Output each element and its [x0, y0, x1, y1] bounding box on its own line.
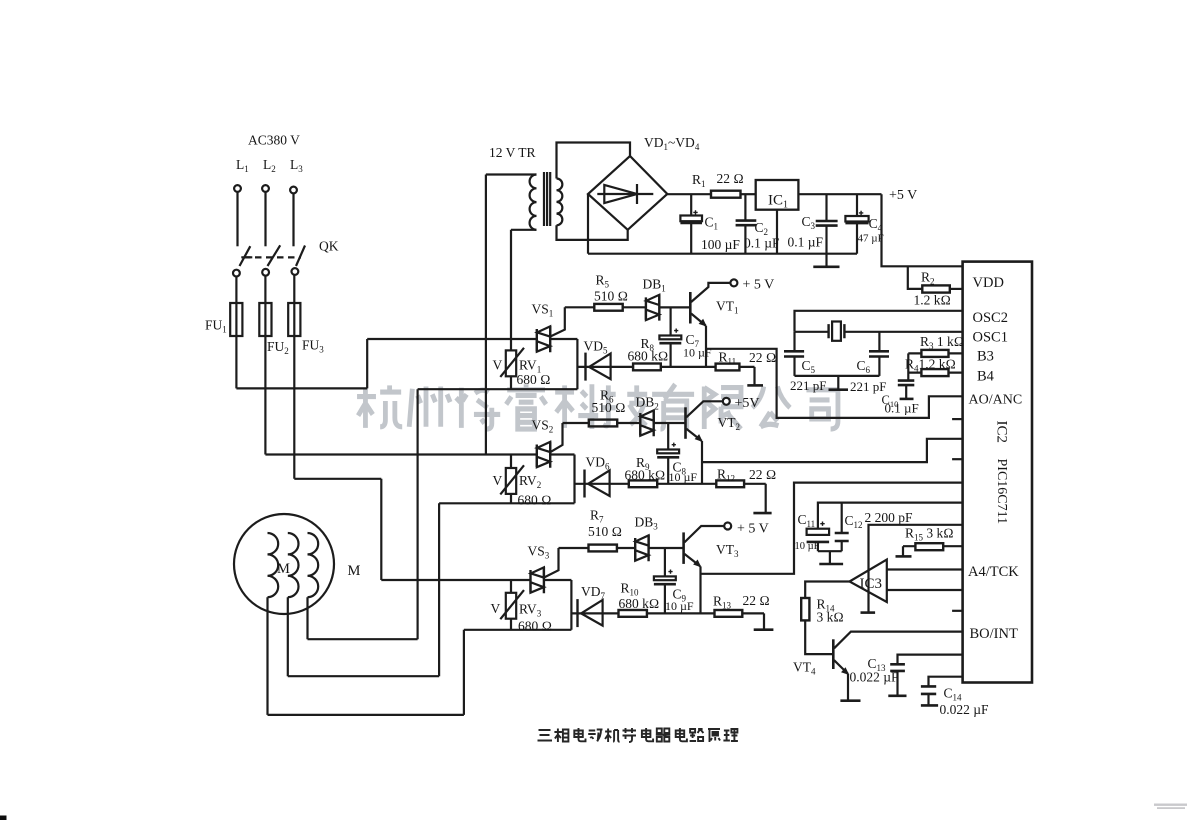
svg-text:L2: L2: [263, 157, 276, 174]
svg-text:R41.2 kΩ: R41.2 kΩ: [905, 357, 956, 374]
wire channel3 phase bus: [381, 579, 530, 581]
svg-text:C11: C11: [798, 512, 816, 529]
wire IC3 input 2: [887, 589, 963, 591]
svg-text:FU1: FU1: [205, 318, 227, 335]
resistor R10: [619, 610, 647, 617]
wire channel3 to motor: [464, 629, 572, 631]
diode VD5: [577, 366, 633, 368]
svg-text:+ 5 V: + 5 V: [737, 522, 769, 537]
capacitor C6: [878, 332, 880, 352]
wire to FU3: [293, 275, 295, 303]
svg-text:680 Ω: 680 Ω: [517, 372, 551, 387]
switch QK contact 2: [262, 269, 269, 276]
svg-text:RV3: RV3: [519, 602, 542, 619]
bridge rectifier VD1-VD4: [588, 156, 667, 230]
svg-text:V: V: [493, 473, 503, 488]
capacitor C8: [667, 423, 669, 450]
svg-text:680 kΩ: 680 kΩ: [628, 349, 669, 364]
fuse FU1: [230, 303, 242, 336]
svg-text:VT3: VT3: [716, 542, 739, 559]
svg-text:IC1: IC1: [768, 193, 788, 211]
wire R1 to IC1: [741, 193, 756, 195]
transistor VT1: [689, 292, 692, 324]
svg-text:R12: R12: [717, 467, 735, 484]
resistor R11: [716, 364, 740, 371]
capacitor C1: [690, 194, 692, 215]
ground below R11: [747, 384, 763, 387]
wire OSC2: [795, 311, 963, 332]
ground below C10: [900, 398, 914, 401]
wire IC3 output to R14: [805, 582, 849, 599]
caption char jie: [623, 728, 637, 742]
svg-text:VT2: VT2: [718, 415, 741, 432]
svg-text:680 kΩ: 680 kΩ: [625, 468, 666, 483]
svg-text:+ 5 V: + 5 V: [743, 278, 775, 293]
svg-text:IC2: IC2: [994, 421, 1010, 444]
capacitor C9: [664, 548, 666, 576]
svg-text:QK: QK: [319, 239, 339, 254]
svg-text:221 pF: 221 pF: [790, 378, 826, 393]
capacitor C5: [793, 332, 795, 352]
caption char san: [538, 730, 553, 741]
ground below R15: [896, 555, 912, 558]
terminal L2: [262, 185, 269, 192]
motor winding 3: [308, 533, 319, 597]
wire channel1 phase bus: [367, 339, 537, 388]
ground below C3: [813, 265, 839, 268]
capacitor C14: [929, 677, 963, 687]
svg-text:10 µF: 10 µF: [683, 346, 712, 360]
svg-text:100 µF: 100 µF: [701, 237, 740, 252]
watermark char rui: [506, 384, 546, 429]
svg-text:M: M: [277, 561, 290, 577]
transformer TR primary winding: [530, 175, 537, 230]
pin stub unconnected 3: [952, 610, 963, 612]
pin stub unconnected 2: [952, 458, 963, 460]
wire DB1 to VT1 base: [659, 306, 690, 308]
resistor R7: [559, 547, 589, 549]
watermark char gong: [752, 386, 790, 426]
svg-text:OSC2: OSC2: [973, 310, 1008, 326]
wire L3 lead: [292, 194, 294, 247]
watermark char jiang: [456, 388, 500, 429]
svg-text:R3 1 kΩ: R3 1 kΩ: [920, 334, 964, 351]
caption char dong: [588, 730, 602, 742]
switch QK blade 1: [240, 246, 253, 266]
varistor RV2: [510, 455, 512, 504]
svg-text:FU2: FU2: [267, 339, 289, 356]
wire gate VS1: [551, 307, 565, 336]
svg-text:22 Ω: 22 Ω: [749, 350, 776, 365]
svg-text:C5: C5: [802, 358, 816, 375]
svg-text:VDD: VDD: [973, 275, 1004, 291]
faint site watermark bottom right: [1154, 804, 1187, 810]
svg-text:V: V: [491, 601, 501, 616]
ground below R12: [753, 512, 771, 515]
svg-text:C12: C12: [845, 513, 863, 530]
svg-text:R7: R7: [590, 508, 604, 525]
wire motor terminal 3: [308, 389, 418, 639]
svg-text:0.022 µF: 0.022 µF: [850, 670, 900, 685]
caption char lu: [690, 729, 704, 741]
wire ground rail of supply: [588, 253, 857, 255]
transistor VT3: [682, 532, 685, 564]
resistor R6: [563, 422, 589, 424]
wire crystal bottom rail: [795, 375, 880, 377]
wire TR primary left down to channel2 bus: [485, 175, 487, 455]
ground below C11 C12: [819, 563, 843, 566]
svg-text:1.2 kΩ: 1.2 kΩ: [914, 293, 951, 308]
terminal +5V channel2: [723, 398, 730, 405]
caption char dian: [574, 728, 585, 741]
watermark char si: [806, 390, 838, 429]
wire secondary bottom to bridge: [557, 225, 628, 240]
fuse FU2: [259, 303, 271, 336]
transformer TR secondary winding: [557, 179, 563, 226]
svg-text:VS2: VS2: [532, 418, 554, 435]
svg-text:R15 3 kΩ: R15 3 kΩ: [905, 526, 954, 543]
transistor VT4: [832, 639, 835, 669]
watermark char you: [652, 384, 694, 429]
wire motor terminal 2: [288, 503, 439, 676]
transformer TR primary bottom lead: [511, 229, 537, 231]
wire motor terminal 1: [268, 597, 464, 715]
capacitor C10: [898, 381, 915, 386]
capacitor C11: [807, 529, 830, 535]
svg-text:R1: R1: [692, 172, 706, 189]
wire FU1 to channel1: [236, 387, 367, 389]
wire channel1 to motor: [418, 388, 578, 390]
regulator IC1: [756, 180, 799, 210]
svg-text:R11: R11: [719, 350, 737, 367]
svg-text:C1: C1: [705, 215, 719, 232]
wire secondary top to bridge: [557, 143, 631, 179]
svg-text:0.1 µF: 0.1 µF: [885, 401, 919, 416]
wire pin to C11/C12: [818, 503, 963, 529]
svg-text:10 µF: 10 µF: [795, 541, 820, 552]
caption char dian3: [676, 728, 687, 741]
resistor R4: [921, 369, 948, 376]
svg-text:22 Ω: 22 Ω: [717, 171, 744, 186]
watermark char zhou: [409, 386, 450, 426]
ground below R13: [754, 628, 774, 631]
wire +5V down to IC2: [882, 194, 963, 266]
triac VS2: [537, 442, 550, 468]
wire VS1 output: [550, 339, 577, 389]
svg-text:0.1 µF: 0.1 µF: [788, 235, 824, 250]
transistor VT2: [684, 407, 687, 439]
wire L1 lead: [236, 192, 238, 246]
svg-text:0.1 µF: 0.1 µF: [744, 236, 780, 251]
diac DB3: [635, 535, 648, 561]
capacitor C13: [898, 655, 963, 665]
terminal +5V channel3: [724, 523, 731, 530]
diode VD7: [571, 612, 618, 614]
svg-text:IC3: IC3: [860, 576, 883, 592]
ground below VT4: [840, 699, 860, 702]
watermark char xian: [704, 386, 741, 429]
wire OSC1: [844, 331, 962, 333]
switch QK contact 3: [292, 268, 299, 275]
diac DB2: [640, 410, 653, 436]
svg-text:R5: R5: [596, 273, 610, 290]
varistor RV1: [510, 339, 512, 389]
watermark char ji: [602, 385, 647, 425]
svg-text:AO/ANC: AO/ANC: [969, 393, 1023, 408]
wire gate VS2: [551, 423, 563, 452]
svg-text:B3: B3: [977, 349, 994, 365]
wire channel2 to motor: [439, 502, 574, 504]
svg-text:C14: C14: [944, 686, 963, 703]
svg-text:R10: R10: [621, 581, 640, 598]
svg-text:VS1: VS1: [532, 302, 554, 319]
svg-text:VT1: VT1: [716, 299, 739, 316]
svg-text:R2: R2: [921, 270, 935, 287]
svg-text:10 µF: 10 µF: [665, 599, 694, 613]
svg-text:VD7: VD7: [581, 584, 606, 601]
resistor R12: [716, 480, 744, 487]
svg-text:A4/TCK: A4/TCK: [968, 564, 1019, 580]
svg-text:VD6: VD6: [586, 455, 611, 472]
wire TR primary bottom down to channel1 bus: [510, 230, 512, 339]
svg-text:C6: C6: [857, 358, 871, 375]
wire gate VS3: [544, 548, 558, 577]
svg-text:10 µF: 10 µF: [669, 470, 698, 484]
wire channel2 phase bus: [265, 453, 536, 455]
svg-text:680 Ω: 680 Ω: [518, 619, 552, 634]
capacitor C12: [841, 503, 843, 533]
wire DB2 to VT2 base: [654, 422, 686, 424]
svg-text:DB1: DB1: [643, 277, 666, 294]
svg-text:L3: L3: [290, 157, 303, 174]
svg-text:12 V TR: 12 V TR: [489, 145, 536, 160]
svg-text:510 Ω: 510 Ω: [594, 289, 628, 304]
ground below crystal: [837, 376, 839, 389]
svg-text:RV2: RV2: [519, 473, 541, 490]
svg-text:47 µF: 47 µF: [858, 233, 884, 245]
wire L2 lead: [264, 192, 266, 246]
resistor R5: [565, 306, 595, 308]
resistor R13: [715, 610, 743, 617]
caption char ji: [605, 729, 620, 743]
wire branch to R2: [908, 266, 923, 289]
wire C11 C12 common: [818, 551, 842, 563]
caption char dian2: [642, 728, 653, 741]
fuse FU3: [288, 303, 300, 336]
svg-text:FU3: FU3: [302, 338, 324, 355]
wire VS2 output: [550, 455, 574, 504]
svg-text:VD1~VD4: VD1~VD4: [644, 135, 700, 152]
wire pin from VT3 emitter: [701, 483, 963, 574]
motor winding 1: [268, 533, 279, 597]
svg-text:+5V: +5V: [735, 396, 760, 411]
wire FU3 down: [293, 336, 295, 479]
triac VS3: [531, 567, 544, 593]
svg-text:B4: B4: [977, 369, 995, 385]
svg-text:C2: C2: [755, 220, 769, 237]
watermark char ke: [555, 384, 598, 429]
diode VD6: [575, 483, 629, 485]
wire pin to IC3 supply: [869, 525, 963, 612]
svg-text:C3: C3: [802, 214, 816, 231]
svg-text:BO/INT: BO/INT: [970, 626, 1018, 642]
svg-text:2 200 pF: 2 200 pF: [865, 510, 914, 525]
svg-text:DB3: DB3: [635, 515, 659, 532]
wire FU3 jog down to channel3 bus: [380, 479, 382, 580]
wire FU1 down: [235, 336, 237, 388]
wire FU3 jog right: [294, 478, 381, 480]
svg-text:510 Ω: 510 Ω: [588, 524, 622, 539]
wire bridge minus down: [587, 194, 589, 254]
svg-text:0.022 µF: 0.022 µF: [940, 702, 990, 717]
pin stub unconnected 1: [952, 418, 963, 420]
terminal L3: [290, 187, 297, 194]
caption char yuan: [708, 729, 720, 742]
capacitor C7: [669, 307, 671, 335]
svg-text:AC380 V: AC380 V: [248, 133, 300, 148]
diac DB1: [646, 294, 659, 320]
crystal X1: [829, 324, 845, 338]
motor winding 2: [288, 533, 299, 597]
wire FU2 down to channel2 bus: [264, 336, 266, 455]
wire to FU2: [264, 276, 266, 303]
varistor RV3: [510, 580, 512, 630]
resistor R15: [915, 543, 943, 550]
wire R3/R4 junction down: [907, 353, 909, 380]
svg-text:M: M: [348, 563, 361, 579]
triac VS1: [537, 326, 550, 352]
wire IC3 input A4/TCK: [887, 568, 963, 570]
wire VS3 output: [544, 580, 572, 630]
svg-text:221 pF: 221 pF: [850, 379, 886, 394]
svg-text:VT4: VT4: [793, 660, 816, 677]
svg-text:OSC1: OSC1: [973, 330, 1008, 346]
wire R2 to VDD: [950, 288, 963, 290]
wire bridge plus to R1: [667, 193, 711, 195]
watermark char hang: [357, 385, 402, 428]
caption char xiang: [554, 729, 568, 743]
resistor R3: [921, 350, 948, 357]
capacitor C4: [856, 194, 858, 216]
svg-text:R13: R13: [713, 594, 732, 611]
resistor R2: [922, 285, 950, 292]
ground below C13: [888, 694, 906, 697]
wire AO/ANC from VT1 emitter: [706, 349, 962, 418]
switch QK contact 1: [233, 270, 240, 277]
svg-text:VS3: VS3: [528, 544, 550, 561]
switch QK linkage dashed: [244, 256, 301, 258]
svg-text:L1: L1: [236, 157, 249, 174]
switch QK blade 2: [268, 245, 281, 266]
bridge inner diode: [597, 184, 653, 204]
svg-text:680 Ω: 680 Ω: [518, 493, 552, 508]
svg-text:V: V: [493, 358, 503, 373]
svg-text:510 Ω: 510 Ω: [592, 400, 626, 415]
svg-text:DB2: DB2: [636, 395, 659, 412]
op-amp IC3: [850, 560, 887, 603]
caption char li: [723, 729, 738, 741]
transformer TR primary top lead: [486, 173, 537, 175]
wire to FU1: [235, 277, 237, 304]
resistor R1: [711, 191, 741, 198]
wire DB3 to VT3 base: [649, 547, 684, 549]
svg-text:680 kΩ: 680 kΩ: [619, 596, 660, 611]
MCU IC2 PIC16C711 body: [963, 262, 1032, 683]
terminal +5V channel1: [730, 279, 737, 286]
wire IC1 to +5V corner: [798, 193, 881, 195]
resistor R9: [629, 480, 657, 487]
capacitor C2: [744, 194, 746, 220]
caption char qi: [656, 729, 671, 742]
terminal L1: [234, 185, 241, 192]
svg-text:22 Ω: 22 Ω: [749, 467, 776, 482]
crystal left lead: [795, 331, 829, 333]
svg-text:PIC16C711: PIC16C711: [994, 459, 1009, 525]
ground below C14: [921, 704, 938, 707]
resistor R14: [801, 598, 809, 620]
svg-text:22 Ω: 22 Ω: [743, 593, 770, 608]
svg-text:VD5: VD5: [584, 339, 609, 356]
switch QK blade 3: [296, 246, 305, 267]
svg-text:3 kΩ: 3 kΩ: [817, 610, 844, 625]
wire B-pin from VT2 emitter: [702, 439, 963, 462]
motor M body: [234, 514, 334, 614]
wire IC1 ground stub: [776, 210, 778, 254]
resistor R8: [633, 364, 661, 371]
scan mark bottom left corner: [0, 816, 7, 820]
svg-text:+5 V: +5 V: [889, 188, 917, 203]
ground below IC3: [861, 611, 876, 614]
capacitor C3: [825, 194, 827, 221]
transformer TR core: [544, 172, 550, 226]
